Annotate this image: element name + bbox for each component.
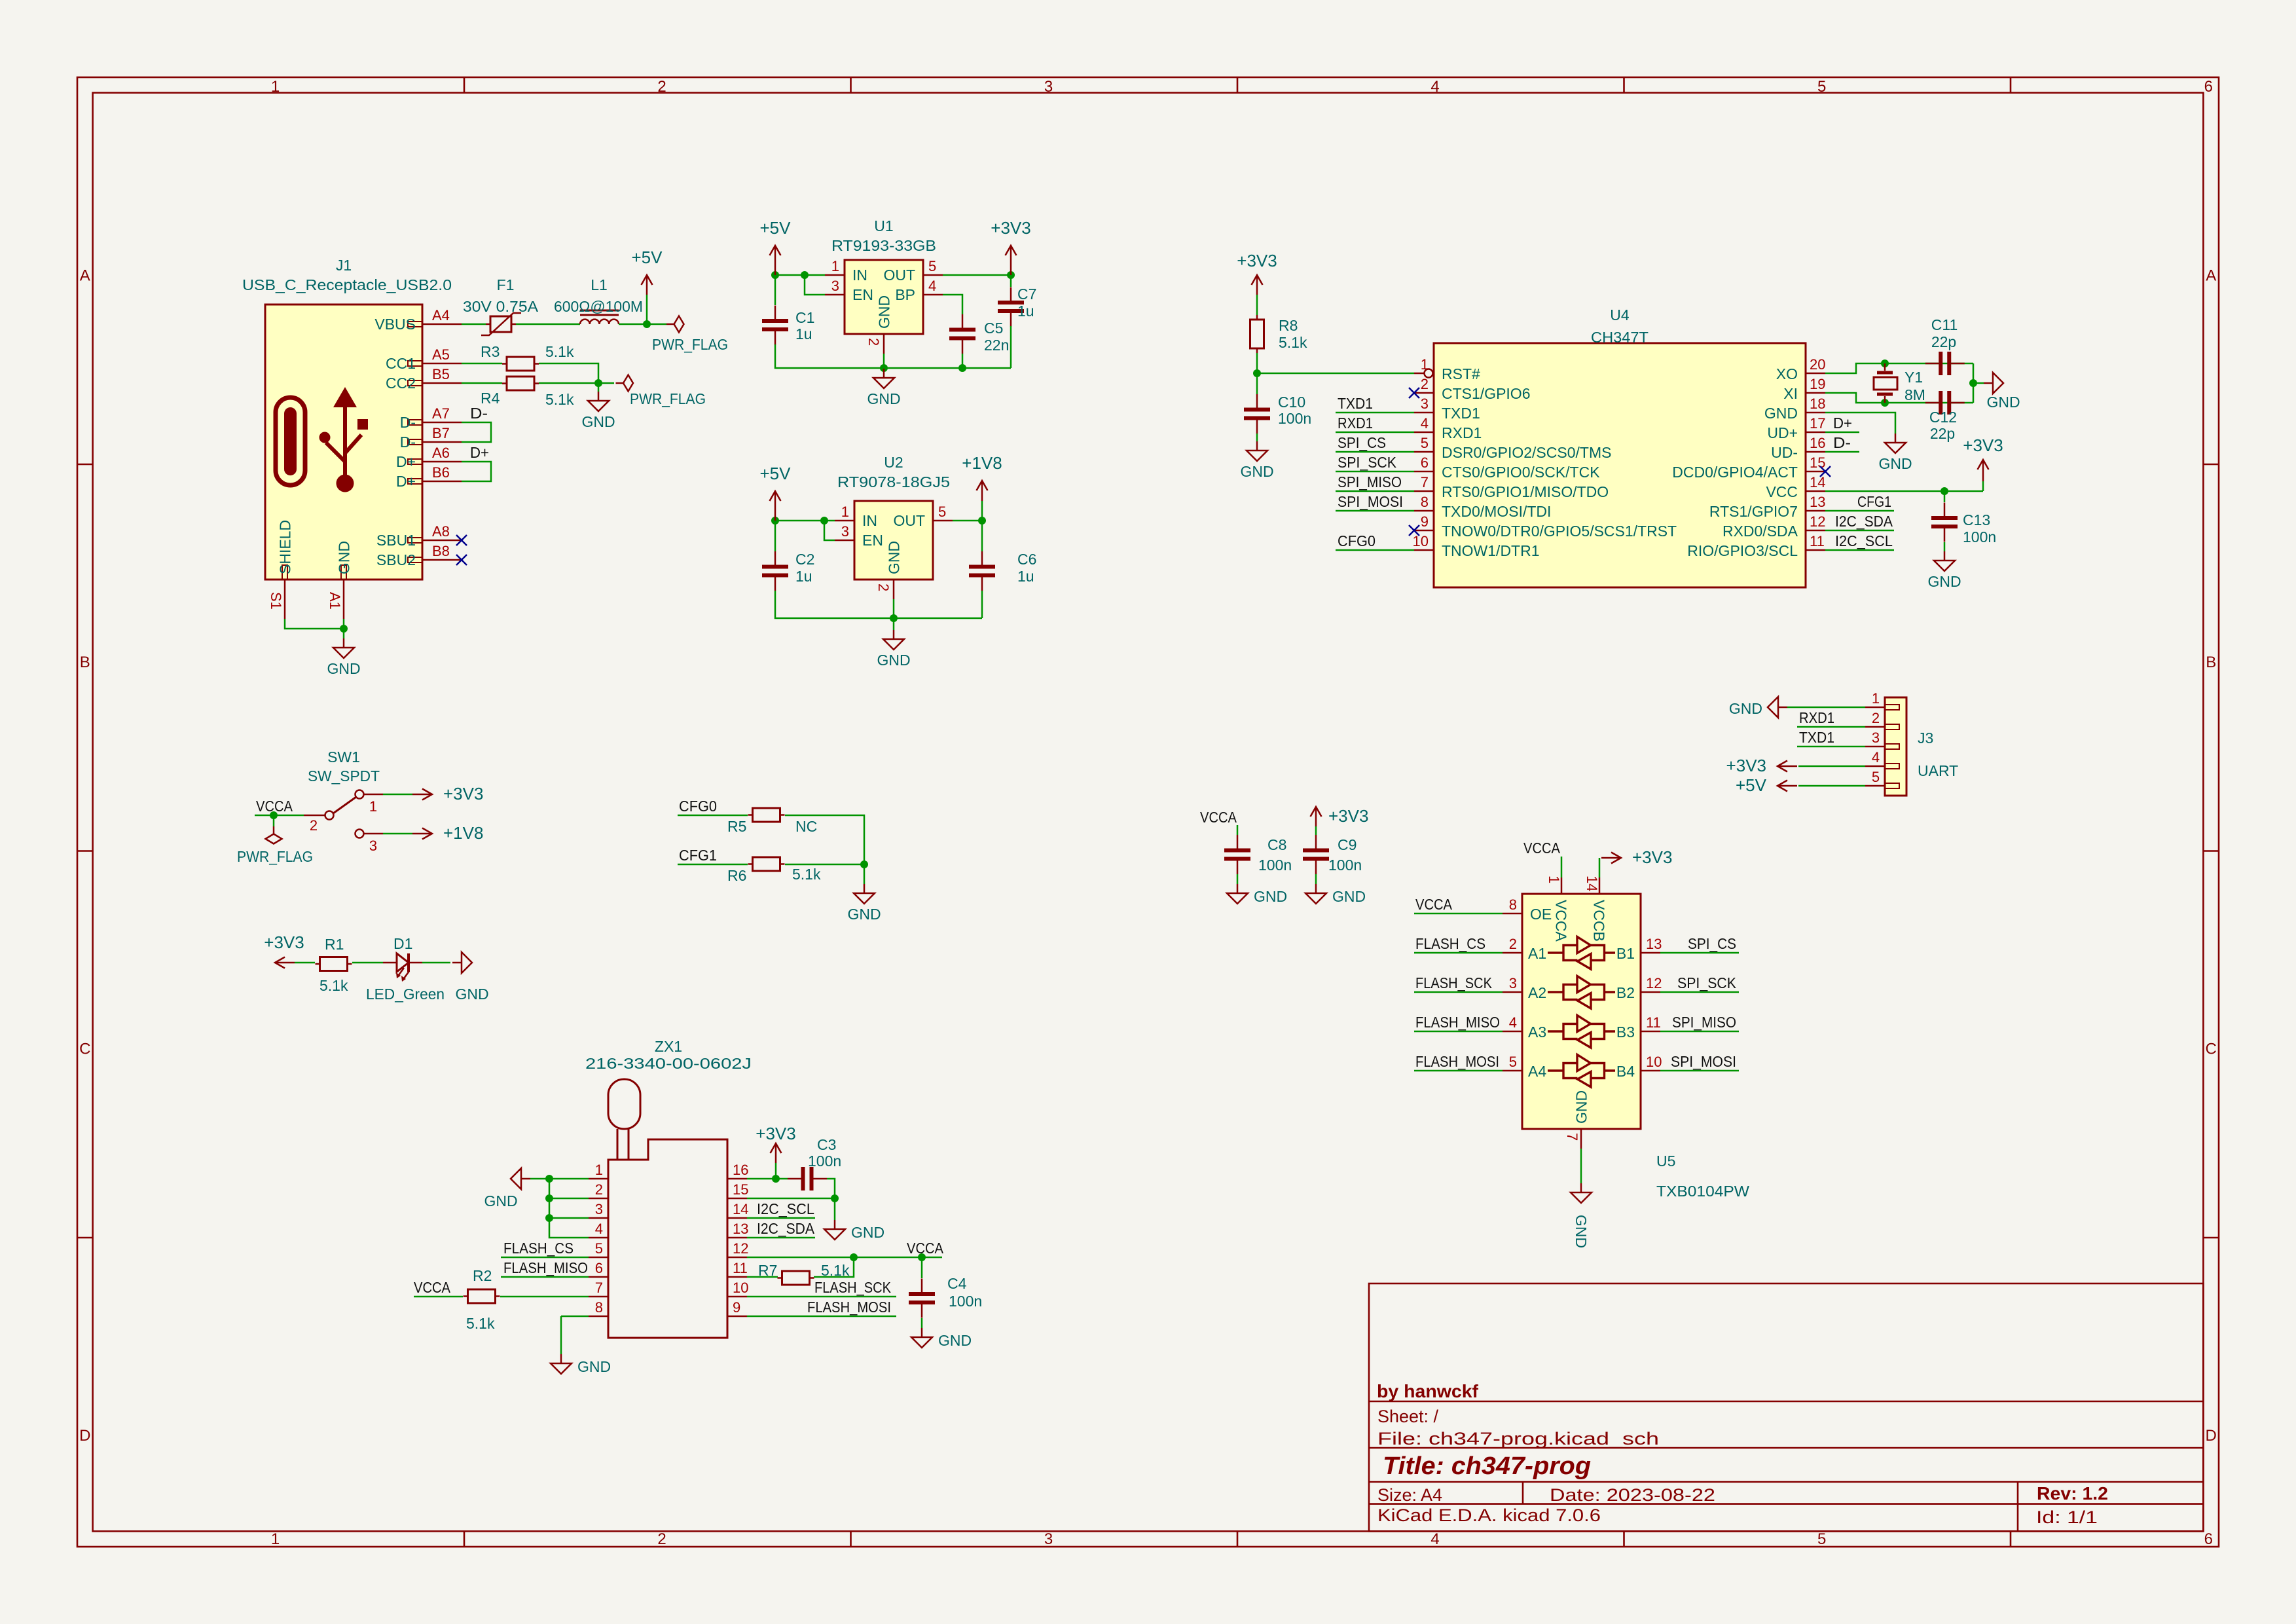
svg-text:13: 13 (733, 1221, 748, 1237)
inductor L1 ferrite bead (580, 310, 619, 324)
J1 pin A1 GND (327, 541, 353, 619)
junction CC gnd node (594, 379, 602, 387)
svg-text:5.1k: 5.1k (1279, 334, 1307, 351)
ground C9 (1305, 884, 1366, 905)
svg-text:CTS1/GPIO6: CTS1/GPIO6 (1442, 385, 1530, 402)
no-connect (1409, 388, 1419, 398)
wire U5 to SPI_MOSI (1660, 1070, 1739, 1072)
svg-text:SPI_MISO: SPI_MISO (1672, 1014, 1736, 1031)
svg-text:1: 1 (271, 1530, 280, 1548)
J3 pin 3 (1865, 729, 1899, 749)
U5 pin 8 OE (1503, 896, 1552, 923)
svg-text:+3V3: +3V3 (991, 218, 1030, 238)
ZX1 pin 14 (727, 1201, 748, 1218)
svg-text:RTS0/GPIO1/MISO/TDO: RTS0/GPIO1/MISO/TDO (1442, 483, 1609, 500)
svg-text:B8: B8 (432, 543, 450, 559)
J1 pin A6 D+ (396, 445, 462, 470)
svg-text:VCCA: VCCA (1200, 809, 1237, 826)
svg-text:IN: IN (852, 267, 867, 284)
U5 pin 1 VCCA (1546, 876, 1570, 942)
U5 buffer channel at 1515 (1548, 976, 1615, 1009)
U5 buffer channel at 1455 (1548, 937, 1615, 970)
wire FLASH_MISO wire (501, 1276, 589, 1278)
wire +3V3 to R8 (1256, 295, 1258, 315)
svg-text:LED_Green: LED_Green (366, 986, 445, 1003)
wire CFG0 wire (678, 815, 748, 817)
svg-text:1: 1 (1546, 876, 1562, 883)
junction +5V C2 (771, 517, 779, 525)
resistor R2 (464, 1289, 500, 1303)
svg-text:A4: A4 (432, 307, 450, 323)
svg-text:8: 8 (1421, 494, 1429, 510)
power +3V3 at VCC (1963, 435, 2003, 481)
no-connect (456, 535, 467, 545)
ground ZX1 C3 (824, 1220, 884, 1241)
junction xtal top (1881, 360, 1889, 367)
svg-text:UD-: UD- (1771, 444, 1798, 461)
wire FLASH_CS wire (501, 1257, 589, 1259)
U2 pin 5 OUT (893, 504, 953, 529)
U4 pin 5 DSR0/GPIO2/SCS0/TMS (1414, 435, 1611, 461)
svg-text:A8: A8 (432, 523, 450, 540)
power +3V3 at R8 (1237, 251, 1277, 295)
svg-text:Size: A4: Size: A4 (1377, 1485, 1442, 1505)
ZX1 pin 10 (727, 1280, 748, 1297)
svg-text:C5: C5 (984, 320, 1003, 337)
svg-text:RXD1: RXD1 (1442, 424, 1482, 441)
wire FLASH_SCK wire (747, 1296, 896, 1298)
power +1V8 at SW1 (412, 823, 483, 843)
wire +3V3 to U5 pin14 (1599, 858, 1601, 877)
ground U4 (1878, 434, 1912, 472)
svg-text:DCD0/GPIO4/ACT: DCD0/GPIO4/ACT (1672, 464, 1798, 481)
U4 pin 14 VCC (1766, 474, 1825, 500)
wire CC2 to R4 (462, 382, 502, 384)
svg-text:GND: GND (1332, 888, 1366, 905)
wire SPI_MISO stub (1336, 490, 1414, 492)
svg-text:+5V: +5V (1736, 775, 1767, 795)
svg-text:C13: C13 (1963, 511, 1990, 528)
svg-text:+1V8: +1V8 (443, 823, 483, 843)
wire SW1 to +3V3 (383, 794, 412, 796)
svg-text:+5V: +5V (760, 218, 792, 238)
svg-text:U4: U4 (1610, 306, 1630, 323)
wire U2 out to C6 (981, 521, 983, 551)
svg-text:C9: C9 (1338, 836, 1357, 853)
svg-text:D: D (79, 1427, 90, 1445)
J1 pin B5 CC2 (386, 366, 462, 392)
wire pin8 drop (560, 1316, 562, 1354)
svg-text:GND: GND (327, 660, 360, 677)
junction xtal gnd node (1969, 379, 1977, 387)
svg-text:5: 5 (928, 258, 936, 274)
ZX1 pin 9 (727, 1299, 747, 1316)
svg-text:+5V: +5V (632, 248, 663, 267)
svg-text:VCCB: VCCB (1591, 900, 1608, 942)
svg-text:100n: 100n (808, 1153, 841, 1170)
svg-text:8: 8 (1509, 896, 1517, 913)
wire VCCA to C4 (921, 1257, 923, 1278)
svg-text:D-: D- (400, 414, 416, 431)
wire VCC wire (1825, 490, 1983, 492)
wire U1 gnd pin (883, 354, 885, 369)
svg-text:+3V3: +3V3 (264, 932, 304, 952)
svg-text:7: 7 (1564, 1133, 1580, 1141)
svg-text:1u: 1u (1017, 303, 1034, 320)
PWR_FLAG flag VCCA (266, 826, 282, 844)
ZX1 pin 4 (589, 1221, 608, 1238)
svg-text:PWR_FLAG: PWR_FLAG (237, 848, 313, 865)
svg-text:UART: UART (1918, 762, 1958, 779)
wire crystal right tie (1973, 363, 1975, 403)
svg-text:4: 4 (595, 1221, 603, 1237)
wire D- pair (462, 422, 491, 442)
svg-text:GND: GND (877, 652, 910, 669)
switch SW1 (304, 790, 383, 838)
wire C4 to gnd (921, 1318, 923, 1328)
svg-text:A1: A1 (1528, 945, 1546, 962)
svg-text:RXD1: RXD1 (1799, 709, 1834, 726)
svg-text:CFG1: CFG1 (1857, 493, 1891, 510)
svg-text:J3: J3 (1918, 729, 1933, 747)
svg-text:DSR0/GPIO2/SCS0/TMS: DSR0/GPIO2/SCS0/TMS (1442, 444, 1611, 461)
capacitor C5 (949, 314, 975, 354)
svg-text:VCCA: VCCA (1415, 896, 1453, 913)
svg-text:GND: GND (455, 986, 488, 1003)
svg-text:R1: R1 (325, 936, 344, 953)
J1 pin A7 D- (400, 405, 462, 431)
junction VBUS +5V (643, 320, 651, 328)
ZX1 pin 6 (589, 1260, 608, 1277)
junction U1 gnd rail (880, 364, 888, 372)
svg-text:3: 3 (1509, 975, 1517, 991)
ZX1 pin 7 (589, 1280, 608, 1297)
wire CFG1 wire (678, 864, 748, 866)
svg-text:U5: U5 (1656, 1153, 1675, 1170)
svg-text:22n: 22n (984, 337, 1009, 354)
wire ZX1 pin8 gnd (561, 1316, 589, 1318)
svg-text:D+: D+ (396, 473, 416, 490)
wire VCCA rail zx1 (747, 1257, 942, 1259)
wire +3V3 to C7 (1010, 275, 1012, 287)
PWR_FLAG flag CC (616, 375, 634, 392)
U4 pin 7 RTS0/GPIO1/MISO/TDO (1414, 474, 1609, 500)
svg-text:C1: C1 (795, 309, 814, 326)
U4 pin 19 XI (1783, 376, 1825, 402)
svg-text:+5V: +5V (760, 464, 792, 483)
svg-text:R3: R3 (481, 343, 500, 360)
svg-text:C4: C4 (947, 1275, 967, 1292)
svg-text:16: 16 (1810, 435, 1825, 451)
svg-text:C6: C6 (1017, 551, 1036, 568)
svg-text:D+: D+ (1833, 415, 1852, 432)
ground U5 (1571, 1183, 1592, 1248)
power +5V at J3 (1736, 775, 1797, 795)
wire pin11 to R7 (747, 1276, 778, 1278)
svg-text:GND: GND (1573, 1090, 1590, 1124)
junction zx1 +3v3 (772, 1175, 780, 1183)
junction RST node (1253, 369, 1261, 377)
svg-text:GND: GND (581, 413, 615, 430)
wire I2C_SCL stub zx1 (747, 1217, 815, 1219)
svg-text:3: 3 (841, 523, 849, 540)
svg-text:4: 4 (1430, 1530, 1439, 1548)
J1 pin A4 VBUS (374, 307, 462, 333)
svg-text:3: 3 (1872, 729, 1880, 746)
svg-text:1u: 1u (795, 568, 812, 585)
wire gnd rail U1 (775, 344, 1011, 368)
svg-text:4: 4 (928, 278, 936, 294)
svg-text:TXB0104PW: TXB0104PW (1656, 1183, 1749, 1200)
U4 pin 20 XO (1776, 356, 1826, 382)
junction U2 gnd rail (890, 614, 898, 622)
J1 pin B6 D+ (396, 464, 462, 490)
svg-text:A2: A2 (1528, 984, 1546, 1001)
svg-text:+3V3: +3V3 (1963, 435, 2003, 455)
svg-text:100n: 100n (1258, 857, 1292, 874)
svg-text:B: B (2206, 654, 2216, 671)
svg-text:U1: U1 (874, 217, 893, 234)
U4 pin 1 RST# (1414, 356, 1480, 382)
wire VCCA to OE (1414, 913, 1503, 915)
wire +3V3 to C9 (1315, 826, 1317, 835)
wire SPI_MOSI stub (1336, 510, 1414, 512)
wire ZX1 pin1 gnd (530, 1178, 589, 1180)
svg-text:5: 5 (938, 504, 946, 520)
LED D1 (383, 953, 422, 982)
junction C5 gnd rail (958, 364, 966, 372)
U5 pin 4 A3 (1503, 1014, 1546, 1041)
wire CFG0 stub (1336, 549, 1414, 551)
power +3V3 at SW1 (412, 784, 483, 803)
svg-text:TXD1: TXD1 (1442, 405, 1480, 422)
U5 pin 12 B2 (1616, 975, 1662, 1001)
svg-text:5: 5 (1872, 769, 1880, 785)
svg-text:D-: D- (1833, 434, 1851, 451)
svg-text:TNOW0/DTR0/GPIO5/SCS1/TRST: TNOW0/DTR0/GPIO5/SCS1/TRST (1442, 523, 1677, 540)
svg-text:D+: D+ (396, 453, 416, 470)
capacitor C10 (1244, 394, 1270, 434)
capacitor C11 (1925, 352, 1965, 375)
svg-text:SPI_MISO: SPI_MISO (1338, 473, 1402, 490)
svg-text:5: 5 (1509, 1054, 1517, 1070)
wire CFG1 stub (1825, 510, 1894, 512)
J1 pin A5 CC1 (386, 346, 462, 372)
wire U1 EN tie (805, 275, 825, 295)
power +5V at U1 (760, 218, 792, 275)
ground U1 (867, 369, 900, 407)
svg-text:1: 1 (1872, 690, 1880, 707)
svg-text:GND: GND (938, 1332, 972, 1349)
svg-text:GND: GND (1927, 573, 1961, 590)
svg-text:17: 17 (1810, 415, 1825, 432)
svg-text:VCCA: VCCA (1553, 900, 1570, 942)
regulator U1 (845, 260, 923, 334)
svg-text:11: 11 (1810, 533, 1825, 549)
svg-text:12: 12 (733, 1240, 748, 1257)
ground C8 (1227, 884, 1287, 905)
svg-text:2: 2 (657, 78, 666, 96)
svg-text:+3V3: +3V3 (1328, 806, 1368, 826)
svg-text:SPI_MOSI: SPI_MOSI (1671, 1053, 1736, 1070)
U5 pin 11 B3 (1616, 1014, 1661, 1041)
wire RST wire (1257, 373, 1414, 375)
power +5V at VBUS (632, 248, 663, 295)
wire C8 to gnd (1237, 874, 1239, 884)
ZX1 pin 16 (727, 1162, 748, 1179)
svg-text:VBUS: VBUS (374, 316, 416, 333)
junction c4 node (918, 1253, 926, 1261)
wire U5 to SPI_SCK (1660, 991, 1739, 993)
svg-text:CFG0: CFG0 (679, 798, 717, 815)
svg-text:A: A (80, 267, 90, 285)
U1 pin 5 OUT (883, 258, 943, 284)
svg-text:I2C_SCL: I2C_SCL (757, 1200, 814, 1217)
U2 pin 2 GND (875, 541, 903, 599)
U1 pin 2 GND (866, 295, 893, 354)
junction zx1 c (545, 1214, 553, 1222)
svg-text:216-3340-00-0602J: 216-3340-00-0602J (585, 1055, 752, 1072)
resistor R5 (748, 808, 785, 822)
svg-text:TXD1: TXD1 (1799, 729, 1834, 746)
svg-text:A3: A3 (1528, 1024, 1546, 1041)
svg-text:100n: 100n (1328, 857, 1362, 874)
svg-text:NC: NC (795, 818, 817, 835)
svg-text:SPI_SCK: SPI_SCK (1677, 974, 1737, 991)
wire U2 OUT (953, 520, 982, 522)
junction +5V C1 (771, 271, 779, 279)
resistor R4 (502, 377, 539, 390)
wire U4 gnd (1825, 413, 1895, 434)
svg-text:9: 9 (733, 1299, 740, 1316)
wire D1 to gnd (422, 962, 450, 964)
svg-text:Y1: Y1 (1904, 369, 1923, 386)
svg-text:VCCA: VCCA (414, 1279, 451, 1296)
svg-text:Date: 2023-08-22: Date: 2023-08-22 (1550, 1485, 1715, 1505)
svg-text:SBU1: SBU1 (376, 532, 416, 549)
svg-text:1: 1 (1421, 356, 1429, 373)
svg-text:6: 6 (2204, 1530, 2213, 1548)
svg-text:5.1k: 5.1k (319, 977, 348, 994)
svg-text:3: 3 (1044, 78, 1053, 96)
svg-text:16: 16 (733, 1162, 748, 1178)
ZX1 pin 11 (727, 1260, 748, 1277)
svg-text:R6: R6 (727, 867, 746, 884)
svg-text:TXD0/MOSI/TDI: TXD0/MOSI/TDI (1442, 503, 1551, 520)
wire J3 +3V3 (1798, 766, 1865, 767)
power +3V3 at U1 (991, 218, 1030, 275)
svg-text:100n: 100n (1278, 410, 1311, 427)
svg-text:20: 20 (1810, 356, 1825, 373)
svg-text:100n: 100n (1963, 528, 1996, 545)
svg-text:D+: D+ (470, 444, 489, 461)
resistor R8 (1250, 315, 1264, 353)
resistor R7 (778, 1271, 814, 1285)
wire SPI_SCK stub (1336, 471, 1414, 473)
svg-text:XI: XI (1783, 385, 1798, 402)
svg-text:3: 3 (831, 278, 839, 294)
svg-text:GND: GND (876, 295, 893, 329)
wire I2C_SCL stub (1825, 549, 1894, 551)
svg-text:11: 11 (733, 1260, 748, 1276)
J3 pin 4 (1865, 749, 1899, 769)
svg-text:2: 2 (657, 1530, 666, 1548)
svg-text:RT9078-18GJ5: RT9078-18GJ5 (837, 473, 950, 490)
svg-text:R7: R7 (758, 1262, 777, 1279)
U5 pin 3 A2 (1503, 975, 1546, 1001)
wire C13 to gnd (1944, 542, 1946, 551)
wire VCCA to C8 (1237, 825, 1239, 835)
J1 pin A8 SBU1 (376, 523, 462, 549)
no-connect (1820, 466, 1831, 477)
wire C10 to gnd (1256, 434, 1258, 441)
svg-text:Title: ch347-prog: Title: ch347-prog (1383, 1452, 1591, 1480)
wire UD+ stub (1825, 432, 1859, 434)
svg-text:CTS0/GPIO0/SCK/TCK: CTS0/GPIO0/SCK/TCK (1442, 464, 1600, 481)
svg-text:B5: B5 (432, 366, 450, 382)
wire +5V to C2 (774, 521, 776, 551)
wire ZX1 gnd chain (549, 1179, 589, 1238)
svg-text:1: 1 (271, 78, 280, 96)
wire VBUS to F1 (462, 323, 486, 325)
svg-text:J1: J1 (336, 257, 352, 274)
wire to gnd flag (1973, 382, 1984, 384)
wire pin16 to C3 (747, 1178, 788, 1180)
svg-text:A7: A7 (432, 405, 450, 422)
svg-text:TXD1: TXD1 (1338, 395, 1373, 412)
J3 pin 5 (1865, 769, 1899, 788)
wire XI to crystal rail (1825, 393, 1973, 403)
wire C6 to rail (981, 591, 983, 618)
svg-text:18: 18 (1810, 396, 1825, 412)
svg-text:A6: A6 (432, 445, 450, 461)
svg-text:+3V3: +3V3 (1632, 847, 1672, 867)
wire gnd rail U2 (775, 591, 982, 618)
U4 pin 17 UD+ (1767, 415, 1825, 441)
svg-text:1u: 1u (795, 325, 812, 342)
svg-text:OUT: OUT (883, 267, 915, 284)
wire C9 to gnd (1315, 874, 1317, 884)
svg-text:L1: L1 (591, 276, 608, 293)
svg-text:2: 2 (875, 583, 892, 591)
wire R1 to D1 (352, 962, 383, 964)
wire U5 gnd wire (1580, 1149, 1582, 1183)
svg-text:12: 12 (1646, 975, 1662, 991)
svg-text:22p: 22p (1931, 333, 1956, 350)
svg-text:1: 1 (841, 504, 849, 520)
svg-text:I2C_SDA: I2C_SDA (757, 1220, 815, 1237)
svg-text:File: ch347-prog.kicad_sch: File: ch347-prog.kicad_sch (1377, 1429, 1659, 1449)
svg-text:RXD1: RXD1 (1338, 415, 1373, 432)
U4 pin 16 UD- (1771, 435, 1825, 461)
connector J1 USB_C_Receptacle_USB2.0 (265, 304, 422, 580)
power +3V3 at J3 (1726, 756, 1797, 775)
U4 pin 10 TNOW1/DTR1 (1413, 533, 1540, 559)
svg-text:5: 5 (1817, 78, 1826, 96)
svg-text:GND: GND (847, 906, 881, 923)
wire to gnd (864, 864, 866, 884)
svg-text:USB_C_Receptacle_USB2.0: USB_C_Receptacle_USB2.0 (242, 276, 452, 293)
U4 pin 2 CTS1/GPIO6 (1414, 376, 1530, 402)
svg-text:SW_SPDT: SW_SPDT (308, 767, 380, 784)
svg-text:D: D (2206, 1427, 2217, 1445)
capacitor C2 (762, 551, 788, 591)
wire VCCA to U5 pin1 (1561, 857, 1563, 877)
wire R5 to gnd node (785, 815, 864, 864)
svg-text:R8: R8 (1279, 317, 1298, 334)
svg-text:S1: S1 (268, 592, 284, 610)
wire R7 to VCCA (814, 1257, 854, 1277)
